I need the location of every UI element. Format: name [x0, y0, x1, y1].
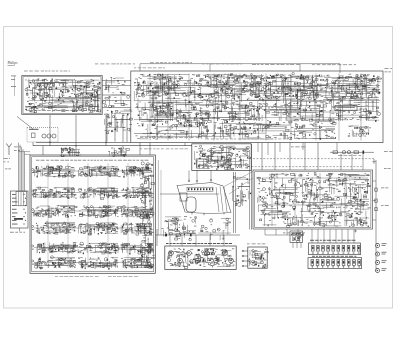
gap coupling parts components	[103, 77, 130, 108]
aerial coil L3	[52, 134, 56, 138]
chassis feet	[192, 212, 224, 215]
line/frame oscillator box	[253, 170, 373, 229]
section label row A	[24, 70, 70, 73]
switch row 3 bus wire	[34, 210, 151, 212]
connector feed wire x348	[347, 229, 349, 243]
switch row 5 bus wire	[34, 247, 151, 249]
RF tuner components	[25, 79, 101, 113]
wire drop x363	[362, 154, 364, 170]
wire drop x76	[75, 115, 77, 155]
connector row 1 caption	[310, 239, 356, 242]
oscillator output wire x298	[297, 229, 299, 235]
wire drop x185	[184, 143, 186, 146]
switch unit vertical wire x68	[67, 163, 69, 268]
AF output wire 3	[210, 170, 212, 179]
svg-text:Philips: Philips	[8, 61, 19, 65]
relay lead 2	[296, 242, 298, 248]
switch row 1 group 2 components	[78, 166, 120, 177]
AF amplifier components	[194, 145, 250, 170]
vertical wire right of switch unit 2	[160, 170, 162, 235]
long wire in video band 2	[140, 135, 230, 137]
long wire in video band	[134, 133, 250, 135]
corner note B8	[385, 67, 393, 70]
connector feed wire x354	[353, 229, 355, 243]
switch unit right column components	[140, 162, 155, 269]
boost chain wire	[330, 151, 374, 153]
switch row 2 group 1 components	[33, 187, 77, 199]
row 6 selector symbol	[32, 260, 34, 262]
vertical wire x235	[235, 172, 237, 233]
left note e	[5, 168, 11, 171]
left margin legend	[11, 76, 16, 97]
wire drop x123	[122, 113, 124, 142]
aerial coil L1	[42, 134, 46, 138]
chassis left bracket	[180, 193, 187, 201]
relay lead 3	[300, 242, 302, 248]
vertical wire right of switch unit	[157, 160, 159, 235]
junction at 106/142	[105, 142, 106, 143]
wire drop x258	[257, 143, 259, 153]
sub label above IF box	[134, 67, 165, 70]
strip bottom lead	[19, 228, 21, 232]
switch row 2 group 2 components	[78, 187, 120, 199]
speaker wiring parts components	[198, 218, 231, 240]
terminal strip inner box	[16, 192, 27, 206]
aerial matching unit box	[27, 128, 58, 143]
valve socket table box	[165, 246, 236, 269]
terminal strip bar	[14, 218, 23, 220]
switch row 4 group 1 components	[36, 222, 76, 234]
connector row 1 pins	[312, 246, 361, 254]
sound IF sub-box parts components	[153, 104, 175, 115]
chassis inner line	[184, 193, 219, 195]
switch unit vertical wire x108	[107, 163, 109, 268]
oscillator vertical wire x320	[319, 173, 321, 226]
callout diagonal to aerial box	[17, 117, 33, 130]
section label row B	[95, 63, 135, 66]
switch row 1 group 3 components	[122, 166, 153, 177]
coil L302	[347, 151, 350, 154]
row 5 selector symbol	[32, 245, 34, 247]
sound IF sub-box	[152, 103, 173, 116]
oscillator output wire x265	[264, 229, 266, 235]
labels along IF box bottom	[205, 138, 288, 141]
connector feed wire x336	[335, 229, 337, 243]
terminal strip caption	[10, 231, 25, 234]
vertical wire x251	[251, 144, 253, 230]
connector row 2 box	[308, 258, 362, 269]
switch row 2 bus wire	[34, 192, 151, 194]
stub wire y220	[373, 219, 377, 221]
antenna note d	[4, 161, 10, 164]
resistor R302	[354, 151, 359, 154]
section label row C	[150, 61, 192, 64]
vibrator pins components	[248, 249, 268, 268]
switch row 5 group 1 components	[37, 242, 78, 253]
relay contacts components	[291, 232, 303, 242]
interconnect wire y95	[102, 94, 131, 96]
top bus drop x340	[339, 64, 341, 73]
relay box	[290, 231, 303, 242]
interconnect wire y100	[102, 100, 131, 102]
pushbutton switch unit box	[30, 155, 155, 273]
RF tuner internal bus	[25, 105, 98, 107]
inner strip wire 3	[23, 192, 25, 206]
wire drop x290	[289, 143, 291, 171]
video output stage components	[201, 121, 336, 140]
labels under IF box	[140, 148, 188, 151]
relay lead 1	[292, 242, 294, 248]
switch row 6 group 1 components	[34, 256, 75, 269]
IF amplifier stages components	[134, 72, 380, 122]
projection line to oscillator box 2	[229, 178, 253, 194]
oscillator output wire x276	[275, 229, 277, 235]
antenna note c	[4, 157, 11, 160]
interconnect wire y85	[102, 85, 131, 87]
wire drop x352	[351, 154, 353, 171]
delay line DL1	[335, 106, 357, 111]
oscillator stages components	[257, 172, 371, 227]
terminal strip feed wire 1	[18, 143, 20, 192]
stage separator wire x266	[265, 74, 267, 141]
valve box feed x182	[181, 235, 183, 246]
top bus drop x210	[209, 64, 211, 71]
wire drop x150	[149, 143, 151, 156]
wire drop x106	[105, 115, 107, 146]
valve socket pin details components	[167, 248, 235, 268]
IF box long bus y100	[134, 100, 380, 102]
labels in video band	[140, 136, 198, 139]
valve box feed x224	[223, 235, 225, 246]
antenna note b	[14, 149, 20, 152]
stub wire y181	[373, 180, 377, 182]
valve box feed x196	[195, 235, 197, 246]
switch unit vertical wire x88	[87, 163, 89, 268]
switch row 3 group 2 components	[79, 205, 121, 217]
wire drop x140	[139, 143, 141, 156]
row 1 selector symbol	[32, 169, 34, 171]
RF tuner unit box	[22, 75, 102, 114]
connector row 2 caption	[312, 255, 356, 258]
capacitor C411	[375, 199, 377, 202]
capacitor C301	[363, 151, 365, 154]
sync separator stage components	[136, 120, 202, 139]
capacitor C402	[190, 234, 192, 237]
inner strip wire 2	[20, 192, 22, 206]
terminal strip feed wire 5	[24, 151, 26, 191]
wire into chassis from left	[160, 193, 184, 195]
bus entry cluster 2 components	[108, 147, 129, 157]
switch unit top labels	[36, 159, 149, 162]
row 3 selector symbol	[32, 209, 34, 211]
right margin note 3	[381, 204, 389, 207]
terminal circle 1	[188, 180, 190, 182]
stage separator wire x240	[239, 74, 241, 141]
AGC dashed line 2	[248, 166, 362, 168]
valve box feed x170	[169, 235, 171, 246]
terminal feed jog 2	[25, 153, 31, 155]
section label row F	[312, 63, 356, 66]
boost diode cluster components	[348, 126, 371, 138]
IF box long bus y85	[134, 85, 380, 87]
stage separator wire x339	[338, 74, 340, 141]
switch row 3 group 1 components	[34, 205, 77, 217]
tuner coupling stage components	[104, 110, 132, 134]
connector feed wire x330	[329, 229, 331, 243]
right margin note	[384, 167, 391, 170]
horizontal bus 1	[36, 141, 131, 143]
resistor R401	[176, 234, 181, 236]
antenna note a	[14, 146, 21, 149]
output transformer parts components	[161, 216, 196, 241]
stage separator wire x361	[360, 74, 362, 141]
terminal strip feed wire 4	[22, 149, 24, 191]
switch row 5 group 3 components	[121, 243, 153, 255]
chassis sketch outline	[177, 183, 231, 214]
chassis top component row	[187, 187, 213, 191]
switch row 4 bus wire	[34, 227, 151, 229]
junction at 50/142	[49, 142, 50, 143]
switch row 6 group 3 components	[121, 257, 154, 268]
label Aerial	[29, 129, 39, 130]
capacitor C401	[165, 234, 167, 237]
vibrator pin leads	[242, 250, 248, 267]
coil L301	[342, 151, 345, 154]
chassis side hatch	[216, 187, 227, 213]
terminal circle 2	[196, 180, 198, 182]
oscillator vertical wire x345	[344, 173, 346, 226]
stub wire y200	[373, 200, 377, 202]
switch unit vertical wire x128	[127, 163, 129, 268]
vertical wire x249	[249, 150, 251, 230]
resistor R301	[333, 151, 338, 154]
wire drop x303	[302, 143, 304, 151]
wire drop x305	[304, 143, 306, 171]
bus entry cluster 1 components	[60, 147, 82, 156]
note w above box	[291, 146, 306, 149]
plus polarity mark	[354, 230, 357, 233]
wire drop x275	[274, 143, 276, 171]
stage separator wire x168	[167, 74, 169, 141]
vertical wire x233	[233, 172, 235, 233]
top bus drop x140	[139, 64, 141, 71]
switch row 4 group 2 components	[79, 223, 119, 235]
right margin supply wire	[375, 160, 377, 272]
bottom horizontal bus	[156, 234, 240, 236]
terminal feed jog 1	[19, 151, 31, 153]
bottom bus right segment	[265, 234, 298, 236]
switch row 3 group 3 components	[121, 206, 153, 218]
top bus wire	[140, 63, 340, 65]
oscillator output wire x287	[286, 229, 288, 235]
label AU3PL	[236, 200, 247, 203]
switch unit vertical wire x48	[47, 163, 49, 268]
stage separator wire x291	[290, 74, 292, 141]
projection line to oscillator box 1	[224, 172, 253, 187]
valve socket symbols	[169, 251, 234, 263]
coupling parts left of oscillator components	[233, 177, 252, 207]
row 2 selector symbol	[32, 190, 34, 192]
chassis caption	[171, 220, 179, 223]
caption below switch unit 2	[108, 275, 138, 278]
wire drop to valve box	[156, 229, 158, 246]
section label row D	[202, 63, 242, 66]
horizontal bus 2	[33, 145, 192, 147]
wire drop x127	[126, 115, 128, 142]
connector row 1 box	[309, 243, 361, 255]
switch row 2 group 3 components	[121, 187, 154, 198]
chassis cylinder	[186, 197, 196, 212]
junction at 76/145	[75, 145, 76, 146]
aerial trimmer C201	[32, 133, 36, 138]
corner note B8b	[385, 71, 391, 74]
stage separator wire x214	[213, 74, 215, 141]
antenna symbol	[6, 144, 12, 156]
wire drop x115	[114, 113, 116, 142]
connector feed wire x324	[323, 229, 325, 243]
labels below boost chain	[338, 154, 361, 157]
IF box long bus y117	[150, 117, 370, 119]
switch row 1 group 1 components	[34, 166, 76, 178]
connector row 2 pins	[311, 260, 361, 268]
interconnect wire y107	[102, 107, 131, 109]
stage separator wire x316	[315, 74, 317, 141]
right margin note 2	[381, 187, 388, 190]
wire drop x50	[49, 115, 51, 146]
IF top band extra stages components	[134, 74, 381, 99]
switch row 1 bus wire	[34, 170, 151, 172]
section label row E	[252, 63, 300, 66]
wire drop x341	[340, 154, 342, 171]
switch row 4 group 3 components	[121, 223, 152, 235]
top bus drop x300	[299, 64, 301, 71]
terminal strip feed wire 2	[19, 145, 21, 191]
wire drop x107	[106, 113, 108, 142]
oscillator vertical wire x295	[294, 173, 296, 226]
interconnect wire y80	[102, 80, 131, 82]
bus bend left	[32, 142, 34, 146]
terminal strip contact labels	[12, 194, 26, 225]
vibrator caption	[247, 243, 265, 246]
valve box feed x210	[209, 235, 211, 246]
oscillator long bus y205	[258, 204, 360, 206]
switch row 6 bus wire	[34, 262, 151, 264]
wire drop x262	[261, 143, 263, 171]
inner strip wire 1	[18, 192, 20, 206]
wire drop x268	[267, 143, 269, 156]
fuse and pilot lamp parts	[376, 243, 387, 272]
capacitor C412	[375, 208, 377, 211]
connector feed wire x318	[317, 229, 319, 243]
caption under oscillator box	[283, 232, 305, 235]
stage separator wire x189	[188, 74, 190, 141]
AF output wire 2	[196, 170, 198, 180]
AGC dashed line	[253, 158, 374, 160]
wire drop x337	[336, 143, 338, 151]
row 4 selector symbol	[32, 226, 34, 228]
AF amplifier box	[192, 144, 251, 171]
switch row 5 group 2 components	[78, 242, 121, 254]
terminal strip block	[11, 191, 29, 228]
oscillator vertical wire x272	[271, 173, 273, 226]
terminal circle 3	[210, 179, 212, 181]
caption below switch unit	[55, 275, 99, 278]
voltage note 6.3V	[384, 150, 392, 153]
stage separator wire x150	[149, 74, 151, 141]
switch row 6 group 2 components	[78, 257, 118, 269]
valve table header	[166, 242, 232, 245]
AF output wire 1	[188, 170, 190, 180]
wire drop x43	[42, 146, 44, 155]
terminal strip feed wire 3	[21, 147, 23, 191]
video detector cluster components	[182, 112, 210, 128]
connector feed wire x342	[341, 229, 343, 243]
capacitor C410	[375, 188, 377, 191]
ground symbol at AGC end	[372, 159, 375, 163]
vibrator unit box	[248, 247, 267, 268]
connector feed wire x312	[311, 229, 313, 243]
IF amplifier and video box	[131, 71, 383, 143]
aerial coil L2	[47, 134, 51, 138]
oscillator long bus y178	[262, 177, 368, 179]
wire drop x280	[279, 143, 281, 153]
RF tuner bottom labels	[26, 109, 97, 112]
wire drop x318	[317, 143, 319, 171]
